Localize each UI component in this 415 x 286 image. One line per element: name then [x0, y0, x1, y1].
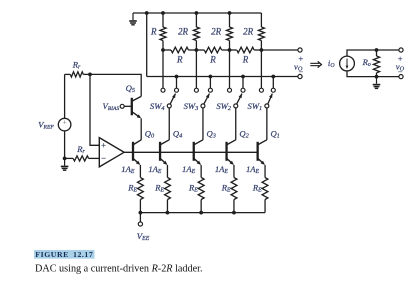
junction RE rail column 2 [166, 211, 170, 215]
svg-text:−: − [101, 154, 106, 163]
svg-text:+: + [63, 118, 67, 126]
junction VREF- / ground / Rr [63, 157, 67, 161]
svg-text:R: R [150, 27, 157, 37]
svg-text:2R: 2R [243, 27, 254, 37]
op-amp U1 [99, 138, 124, 167]
junction top rail column 3 [228, 11, 232, 15]
resistor RE of Q3 [188, 178, 204, 213]
junction RE rail column 3 [199, 211, 203, 215]
wire node A to Q5 collector [90, 74, 141, 96]
wire ladder output to vO+ terminal [261, 49, 298, 51]
svg-text:R: R [176, 55, 183, 65]
wire grounded rail down to switch SW3 right terminal [209, 77, 211, 89]
resistor Ro [362, 50, 380, 77]
node ladder node 3 [195, 48, 199, 52]
ground (top of R-2R ladder) [129, 13, 137, 25]
transistor Q3 [194, 129, 216, 165]
label vO output (ladder) [294, 54, 303, 76]
switch SW2 [216, 88, 245, 112]
wire ladder node 2 down to switch SW2 left terminal [229, 50, 231, 88]
terminal VBIAS [120, 104, 124, 108]
switch SW4 [150, 88, 179, 112]
junction Ro bottom [375, 75, 379, 79]
junction grounded rail / SW1 [271, 75, 275, 79]
svg-text:+: + [101, 141, 106, 150]
switch SW1 [248, 88, 276, 112]
terminal vO- (equivalent) [399, 75, 403, 79]
junction top rail / ground return [145, 11, 149, 15]
wire Q2 emitter to RE [233, 165, 235, 178]
resistor RE of Q4 [154, 178, 170, 213]
label vO output (equivalent) [396, 54, 405, 76]
wire Q4 emitter to RE [166, 165, 168, 178]
wire Q5 emitter to Q0 collector [140, 118, 142, 139]
ground (VREF return) [61, 158, 69, 170]
resistor R vertical #1 (R (ladder terminating resistor)) [150, 13, 166, 50]
resistor Rr (op-amp inverting input) [65, 144, 100, 161]
wire Q3 emitter to RE [200, 165, 202, 178]
transistor Q4 [160, 129, 182, 165]
node ladder node 1 [260, 48, 264, 52]
svg-text:2R: 2R [211, 27, 222, 37]
node A (Rr / op-amp + input / Q5 collector) [88, 73, 92, 77]
terminal vO+ (ladder output) [298, 48, 302, 52]
wire VEE stub [139, 213, 141, 222]
wire ladder node 4 down to switch SW4 left terminal [162, 50, 164, 88]
wire equivalent top rail [347, 50, 399, 56]
terminal vO- (ladder output) [298, 74, 302, 78]
svg-text:−: − [298, 68, 303, 77]
wire grounded rail down to switch SW1 right terminal [272, 77, 274, 89]
wire SW3 pivot to Q3 collector [202, 108, 204, 140]
wire node A to op-amp + input [90, 74, 99, 145]
svg-text:2R: 2R [178, 27, 189, 37]
resistor 2R vertical #4 (2R (bit 2 branch)) [243, 13, 264, 50]
wire SW2 pivot to Q2 collector [235, 108, 237, 140]
svg-text:−: − [398, 68, 403, 77]
wire grounded rail down to switch SW2 right terminal [242, 77, 244, 89]
node ladder node 4 [161, 48, 165, 52]
wire emitter resistors common rail [140, 212, 265, 214]
junction grounded rail / SW2 [241, 75, 245, 79]
junction grounded rail / SW4 [175, 75, 179, 79]
transistor Q0 [133, 129, 155, 165]
wire grounded rail down to switch SW4 right terminal [176, 77, 178, 89]
svg-text:DAC using a current-driven R-2: DAC using a current-driven R-2R ladder. [35, 263, 203, 274]
resistor R horizontal #2 (ladder series) [196, 47, 229, 64]
transistor Q5 [124, 83, 141, 118]
transistor Q1 [258, 129, 280, 165]
junction top rail column 2 [195, 11, 199, 15]
wire ladder node 1 down to switch SW1 left terminal [260, 50, 262, 88]
wire ladder ground return (top rail down to lower grounded rail) [146, 13, 148, 77]
transistor Q2 [227, 129, 250, 165]
junction grounded rail / SW3 [209, 75, 213, 79]
svg-text:FIGURE 12.17: FIGURE 12.17 [35, 250, 93, 259]
wire ladder node 3 down to switch SW3 left terminal [195, 50, 197, 88]
node ladder node 2 [228, 48, 232, 52]
label equivalence arrow [310, 61, 321, 67]
wire VREF bottom to ground node [64, 131, 66, 159]
wire Q1 emitter to RE [264, 165, 266, 178]
wire op-amp output to transistor bases rail [124, 151, 258, 153]
resistor R horizontal #3 (ladder series) [230, 47, 262, 64]
svg-text:+: + [298, 54, 303, 63]
wire SW1 pivot to Q1 collector [266, 108, 268, 140]
junction RE rail column 4 [232, 211, 236, 215]
resistor 2R vertical #2 (2R (bit 4 branch)) [178, 13, 199, 50]
resistor RE of Q0 [127, 178, 143, 213]
switch SW3 [184, 88, 213, 112]
terminal VEE [138, 222, 142, 226]
junction Ro top [375, 48, 379, 52]
voltage source VREF [38, 118, 71, 131]
resistor R horizontal #1 (ladder series) [163, 47, 196, 64]
wire top rail (ladder top, grounded) [133, 12, 261, 14]
resistor 2R vertical #3 (2R (bit 3 branch)) [211, 13, 232, 50]
svg-text:R: R [242, 55, 249, 65]
wire SW4 pivot to Q4 collector [168, 108, 170, 140]
wire VREF top to Rr [64, 74, 66, 118]
junction VEE stub [139, 211, 143, 215]
resistor RE of Q1 [252, 178, 268, 213]
wire grounded rail to vO- terminal [147, 76, 298, 78]
svg-text:R: R [209, 55, 216, 65]
terminal vO+ (equivalent) [399, 48, 403, 52]
current source iO [328, 56, 354, 71]
wire Q0 emitter to RE [139, 165, 141, 178]
ground (equivalent circuit) [373, 77, 381, 89]
resistor RE of Q2 [221, 178, 237, 213]
junction top rail column 1 [161, 11, 165, 15]
resistor Rr (top, reference feedback) [65, 60, 90, 78]
label figure caption [34, 250, 203, 274]
wire equivalent bottom rail [347, 71, 399, 77]
